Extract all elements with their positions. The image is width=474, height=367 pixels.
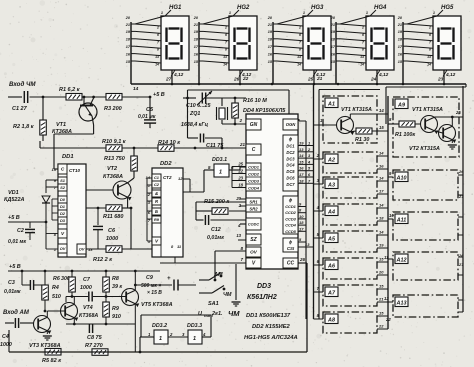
svg-text:4,12: 4,12 [173,72,184,78]
svg-text:R9: R9 [154,217,160,222]
svg-text:SZ: SZ [250,237,257,243]
svg-text:15: 15 [379,125,384,130]
svg-text:A10: A10 [396,175,407,181]
svg-text:COD4: COD4 [248,186,260,191]
svg-text:R4: R4 [52,285,59,291]
svg-text:OV: OV [60,246,66,251]
svg-text:21: 21 [239,142,246,147]
svg-text:Б: Б [155,209,158,214]
svg-text:15: 15 [379,311,384,316]
svg-text:SA1: SA1 [208,301,219,307]
svg-text:CSI: CSI [287,246,295,251]
svg-text:6: 6 [299,33,301,37]
svg-text:1: 1 [161,11,163,15]
svg-text:С10 6...25: С10 6...25 [186,103,211,109]
svg-text:Вход АМ: Вход АМ [3,310,30,316]
svg-text:13: 13 [305,242,310,247]
svg-text:6: 6 [225,33,227,37]
svg-text:A13: A13 [396,300,407,306]
svg-text:19: 19 [299,141,304,146]
svg-text:DD1: DD1 [62,154,74,160]
svg-text:17: 17 [379,189,384,194]
svg-text:15: 15 [299,159,304,164]
svg-text:S2: S2 [60,185,66,190]
svg-text:R1 6,2 к: R1 6,2 к [59,87,81,93]
svg-text:1: 1 [433,11,435,15]
svg-text:DC4: DC4 [286,163,295,168]
svg-text:13: 13 [360,55,364,59]
svg-text:A1: A1 [327,101,335,107]
svg-text:OV: OV [250,250,258,255]
svg-text:ЧМ: ЧМ [228,309,240,318]
svg-text:DC2: DC2 [286,150,295,155]
svg-text:GN: GN [250,122,258,128]
svg-text:21: 21 [193,23,198,27]
svg-text:4,12: 4,12 [445,72,456,78]
svg-text:21: 21 [316,76,323,82]
svg-text:R8: R8 [112,276,119,282]
svg-text:0,01 мк: 0,01 мк [138,114,156,120]
svg-text:39 к: 39 к [112,284,122,290]
svg-text:2: 2 [298,26,301,30]
svg-text:12: 12 [384,296,389,301]
svg-text:22: 22 [378,324,384,329]
svg-text:DD4 КР1506ХЛ5: DD4 КР1506ХЛ5 [243,108,286,114]
svg-text:20: 20 [397,16,403,20]
svg-text:14: 14 [379,176,384,181]
svg-text:1: 1 [219,170,222,176]
svg-text:13: 13 [297,55,301,59]
svg-text:1: 1 [303,11,305,15]
svg-text:С1 27: С1 27 [12,106,28,112]
svg-text:DD3.1: DD3.1 [212,157,227,163]
svg-text:0,01мк: 0,01мк [4,289,21,295]
svg-text:ZQ1: ZQ1 [189,111,200,117]
svg-text:1: 1 [159,336,162,342]
svg-text:R10 9,1 к: R10 9,1 к [102,139,127,145]
svg-text:14: 14 [360,63,364,67]
svg-text:1000: 1000 [106,236,118,242]
svg-text:+5 В: +5 В [9,264,21,270]
svg-text:510: 510 [52,294,61,300]
svg-text:24: 24 [370,77,377,83]
svg-text:17: 17 [299,172,304,177]
svg-text:R13 750: R13 750 [104,156,125,162]
svg-text:DC5: DC5 [286,169,295,174]
svg-text:С6: С6 [108,228,116,234]
svg-text:21: 21 [267,23,272,27]
svg-text:С9: С9 [146,275,153,281]
svg-text:20: 20 [193,16,199,20]
svg-text:COD3: COD3 [248,179,260,184]
svg-text:1000: 1000 [0,342,12,348]
svg-text:15: 15 [379,284,384,289]
svg-text:R12 2 к: R12 2 к [93,257,113,263]
svg-text:1: 1 [366,11,368,15]
svg-text:D0: D0 [60,197,66,202]
svg-text:VT1: VT1 [56,122,66,128]
svg-text:10: 10 [389,213,394,218]
svg-text:18: 18 [379,216,384,221]
svg-text:8: 8 [362,48,364,52]
svg-text:ϕ: ϕ [289,198,293,203]
svg-text:С3: С3 [8,280,15,286]
svg-text:S1: S1 [60,178,65,183]
svg-text:A4: A4 [327,209,335,215]
svg-text:С8 75: С8 75 [87,335,103,341]
svg-text:Вход ЧМ: Вход ЧМ [9,81,36,88]
svg-text:VT1 КТ315А: VT1 КТ315А [341,107,372,113]
svg-text:8: 8 [225,48,227,52]
svg-text:R2 1,8 к: R2 1,8 к [13,124,35,130]
svg-text:26: 26 [299,257,306,262]
svg-text:DD3.3: DD3.3 [187,323,202,329]
svg-text:С2: С2 [154,182,160,187]
svg-text:A11: A11 [396,217,407,223]
svg-text:25: 25 [307,77,314,83]
svg-text:6: 6 [157,33,159,37]
svg-text:+5 В: +5 В [153,92,165,98]
svg-text:СТ10: СТ10 [69,168,81,173]
svg-text:CCD5: CCD5 [285,229,296,234]
svg-text:14: 14 [379,108,384,113]
svg-text:OGN: OGN [286,122,297,127]
svg-text:С1: С1 [154,175,159,180]
svg-text:КД522А: КД522А [4,197,25,203]
svg-text:R11 680: R11 680 [103,214,123,220]
svg-text:22: 22 [242,76,249,82]
svg-text:A12: A12 [396,257,407,263]
svg-text:2: 2 [156,26,159,30]
svg-text:8: 8 [429,48,431,52]
svg-text:6: 6 [362,33,364,37]
svg-text:С7: С7 [83,277,91,283]
svg-text:27: 27 [165,77,172,83]
svg-text:21: 21 [397,23,402,27]
svg-text:DC3: DC3 [286,156,295,161]
svg-text:К561ЛН2: К561ЛН2 [247,294,277,301]
svg-text:11: 11 [384,255,389,260]
svg-text:R9: R9 [112,306,119,312]
svg-text:A3: A3 [327,182,335,188]
svg-text:D3: D3 [60,218,66,223]
svg-text:14: 14 [155,63,159,67]
svg-text:14: 14 [223,63,227,67]
svg-text:500 мк ×: 500 мк × [141,283,161,289]
svg-text:16: 16 [299,166,304,171]
svg-text:С12: С12 [211,227,221,233]
svg-text:18: 18 [299,178,304,183]
svg-text:CCD4: CCD4 [285,223,296,228]
svg-text:+5 В: +5 В [8,215,20,221]
svg-text:13: 13 [236,233,241,238]
svg-text:DC6: DC6 [286,176,295,181]
svg-text:R5 82 к: R5 82 к [42,358,62,364]
svg-text:2: 2 [428,26,431,30]
svg-text:1638,4 кГц: 1638,4 кГц [181,122,209,128]
svg-text:4,12: 4,12 [378,72,389,78]
svg-text:1: 1 [193,336,196,342]
svg-text:18: 18 [299,220,304,225]
svg-text:× 15 В: × 15 В [147,290,162,296]
svg-text:CCD3: CCD3 [285,216,296,221]
svg-text:VT2 КТ315А: VT2 КТ315А [409,146,440,152]
svg-text:R1 30: R1 30 [355,137,369,143]
svg-text:СТ2: СТ2 [163,175,172,180]
svg-text:OV: OV [79,247,85,252]
svg-text:23: 23 [437,77,444,83]
svg-text:COD2: COD2 [248,172,260,177]
svg-text:DC1: DC1 [286,144,295,149]
svg-text:КТ368А: КТ368А [79,313,98,319]
svg-text:A9: A9 [397,102,405,108]
svg-text:+: + [167,276,171,282]
svg-text:A7: A7 [327,290,336,296]
svg-text:21: 21 [330,23,335,27]
svg-text:2: 2 [224,26,227,30]
svg-text:VT1 КТ315А: VT1 КТ315А [412,107,443,113]
svg-text:17: 17 [299,226,304,231]
svg-text:A8: A8 [327,317,335,323]
svg-text:КТ368А: КТ368А [103,174,123,180]
svg-text:14: 14 [146,175,151,180]
svg-text:14: 14 [297,63,301,67]
svg-text:HG1-HG5 АЛС324А: HG1-HG5 АЛС324А [244,335,298,341]
svg-text:С5: С5 [146,107,154,113]
svg-text:19: 19 [379,243,384,248]
svg-text:2г1.: 2г1. [211,311,223,317]
svg-text:SR2: SR2 [249,206,258,211]
svg-text:A6: A6 [327,263,336,269]
svg-text:8: 8 [299,48,301,52]
svg-text:22: 22 [385,317,391,322]
svg-text:DD3.2: DD3.2 [152,323,167,329]
svg-text:0,01 мк: 0,01 мк [8,239,26,245]
svg-text:25: 25 [455,110,461,115]
svg-text:R14 10 к: R14 10 к [158,140,181,146]
svg-text:12: 12 [178,176,183,181]
svg-text:DD2: DD2 [160,161,172,167]
svg-text:CC: CC [287,261,295,267]
svg-text:25: 25 [237,162,243,167]
svg-text:14: 14 [379,151,384,156]
svg-text:18: 18 [238,183,243,188]
svg-text:26: 26 [233,77,240,83]
svg-text:DD3: DD3 [257,283,271,290]
svg-text:2: 2 [361,26,364,30]
svg-text:R7 270: R7 270 [85,343,103,349]
svg-text:VT4: VT4 [83,305,93,311]
svg-text:13: 13 [299,147,304,152]
svg-text:A2: A2 [327,157,335,163]
svg-text:22: 22 [237,169,243,174]
svg-text:14: 14 [379,203,384,208]
svg-text:VT5 КТ368А: VT5 КТ368А [141,302,173,308]
svg-text:0,01мк: 0,01мк [207,235,224,241]
svg-text:910: 910 [112,314,121,320]
svg-text:1000: 1000 [80,285,92,291]
svg-text:13: 13 [155,55,159,59]
svg-text:21: 21 [125,23,130,27]
svg-text:16: 16 [379,164,384,169]
svg-text:VT2: VT2 [107,166,117,172]
svg-text:A5: A5 [327,236,336,242]
svg-text:R3 200: R3 200 [104,106,122,112]
svg-text:С4: С4 [2,334,9,340]
svg-text:14: 14 [427,63,431,67]
svg-text:CCD2: CCD2 [285,210,296,215]
svg-text:ЧМ: ЧМ [223,292,232,298]
svg-text:8: 8 [157,48,159,52]
svg-text:20: 20 [267,16,273,20]
svg-text:14: 14 [133,86,139,92]
svg-text:C: C [252,147,256,153]
svg-text:20: 20 [378,270,384,275]
svg-text:1: 1 [229,11,231,15]
svg-text:14: 14 [379,230,384,235]
svg-text:D2: D2 [60,211,66,216]
svg-text:13: 13 [223,55,227,59]
svg-text:С2: С2 [17,228,24,234]
svg-text:SR1: SR1 [249,199,258,204]
svg-text:DD1 К500ИЕ137: DD1 К500ИЕ137 [246,313,291,319]
svg-text:DC7: DC7 [286,182,295,187]
svg-text:10: 10 [299,214,304,219]
svg-text:D1: D1 [60,204,65,209]
svg-text:R1 100к: R1 100к [395,132,415,138]
svg-text:13: 13 [427,55,431,59]
svg-text:R16 10 М: R16 10 М [243,98,267,104]
svg-text:4: 4 [237,223,241,228]
svg-text:6: 6 [429,33,431,37]
svg-text:VD1: VD1 [8,190,19,196]
svg-text:23: 23 [237,176,243,181]
svg-text:ϕ: ϕ [289,137,293,142]
svg-text:20: 20 [330,16,336,20]
svg-text:20: 20 [125,16,131,20]
svg-text:CCD1: CCD1 [285,204,296,209]
svg-text:DD2 К155ИЕ2: DD2 К155ИЕ2 [252,324,290,330]
svg-text:CODC: CODC [248,223,259,227]
svg-text:COD1: COD1 [248,165,259,170]
svg-text:R6: R6 [53,276,60,282]
svg-text:R: R [155,199,158,204]
svg-text:14: 14 [299,153,304,158]
